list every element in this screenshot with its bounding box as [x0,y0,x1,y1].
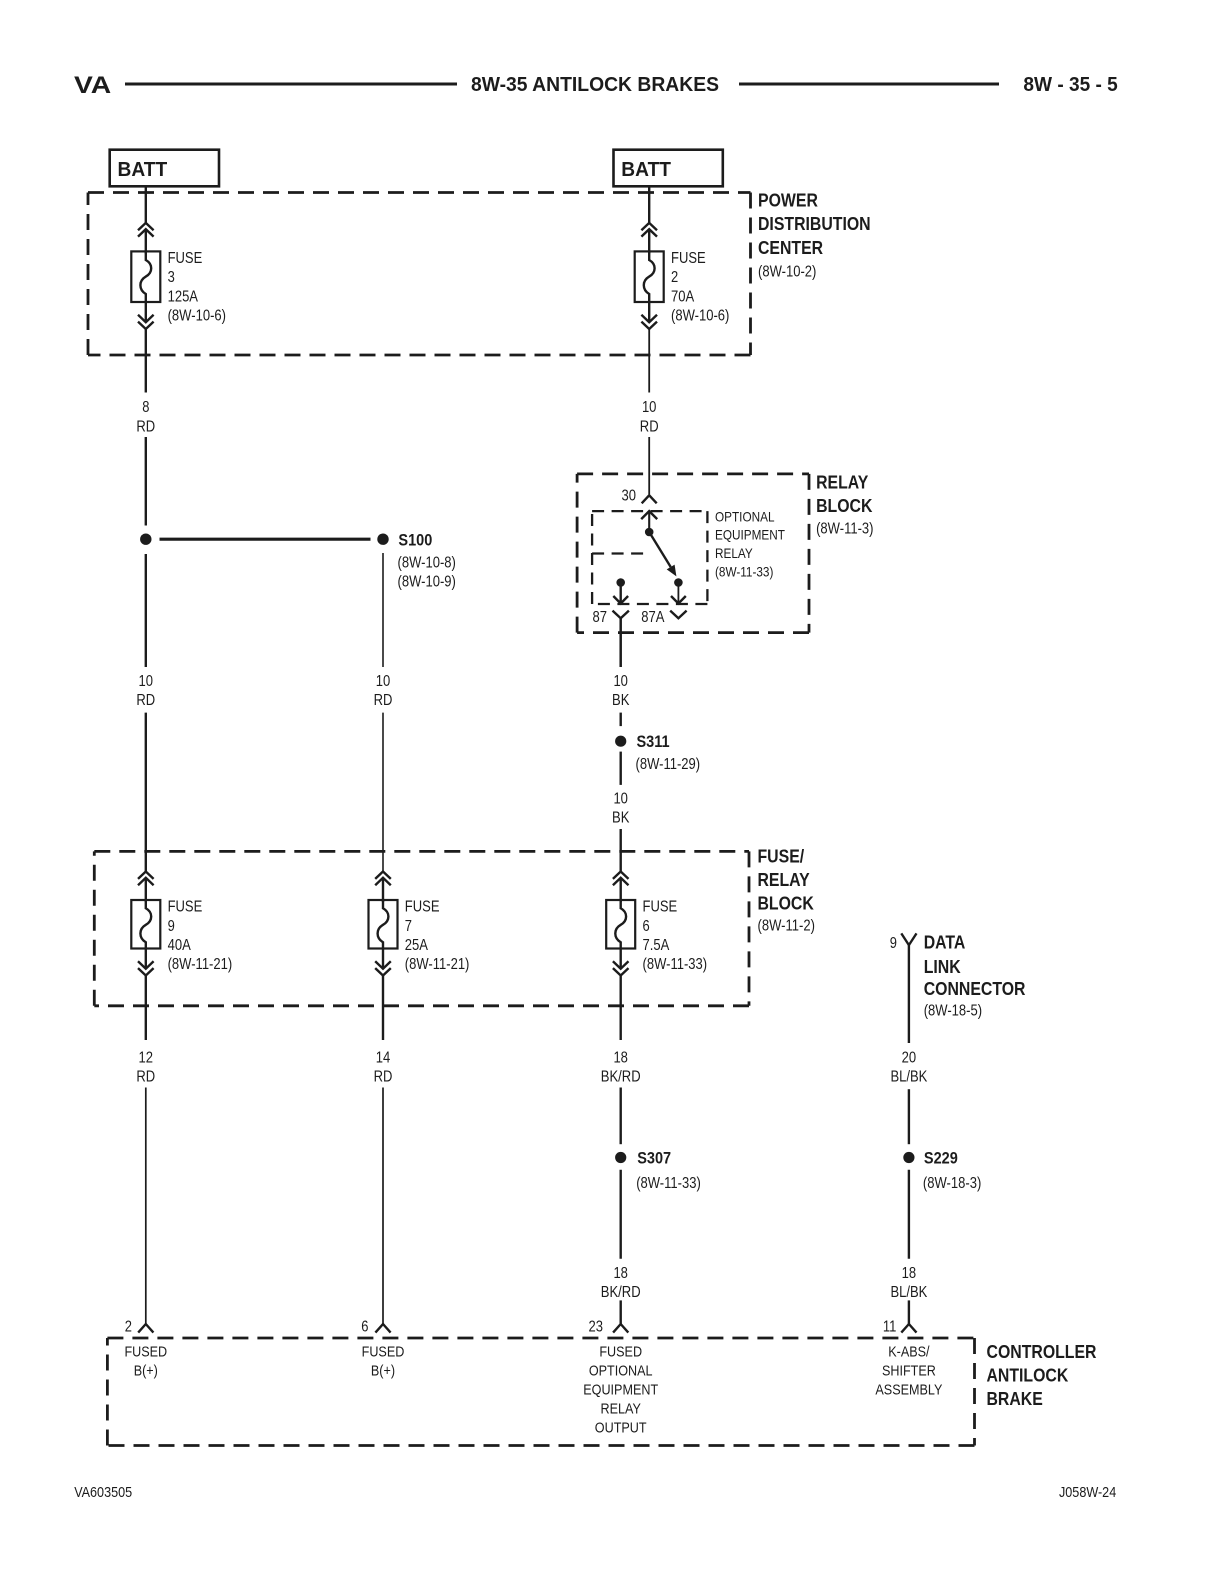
svg-text:40A: 40A [168,937,192,954]
svg-text:2: 2 [671,269,678,286]
svg-text:J058W-24: J058W-24 [1059,1484,1116,1501]
svg-text:RD: RD [136,692,155,709]
svg-text:RELAY: RELAY [601,1400,641,1417]
svg-text:125A: 125A [168,288,199,305]
svg-text:FUSE: FUSE [405,899,440,916]
svg-text:S311: S311 [637,733,670,751]
svg-text:7: 7 [405,918,412,935]
svg-text:8: 8 [142,399,149,416]
svg-text:FUSED: FUSED [124,1343,167,1360]
svg-text:BK/RD: BK/RD [601,1069,641,1086]
svg-text:K-ABS/: K-ABS/ [888,1343,930,1360]
svg-text:FUSE: FUSE [168,250,203,267]
svg-text:(8W-11-2): (8W-11-2) [758,918,815,935]
svg-text:B(+): B(+) [371,1362,395,1379]
svg-text:10: 10 [139,673,154,690]
svg-text:RD: RD [374,1069,393,1086]
svg-text:20: 20 [902,1049,917,1066]
svg-text:OUTPUT: OUTPUT [595,1419,647,1436]
svg-text:18: 18 [902,1265,917,1282]
svg-text:FUSE: FUSE [643,899,678,916]
svg-text:(8W-10-2): (8W-10-2) [758,264,816,281]
svg-text:FUSED: FUSED [599,1343,642,1360]
svg-text:SHIFTER: SHIFTER [882,1362,936,1379]
svg-text:BK/RD: BK/RD [601,1284,641,1301]
svg-text:DATA: DATA [924,933,966,953]
svg-text:18: 18 [613,1049,628,1066]
svg-text:18: 18 [613,1265,628,1282]
svg-text:7.5A: 7.5A [643,937,670,954]
svg-text:VA: VA [74,72,112,99]
svg-text:10: 10 [376,673,391,690]
svg-text:6: 6 [643,918,650,935]
svg-text:RD: RD [136,1069,155,1086]
svg-text:12: 12 [139,1049,154,1066]
svg-text:(8W-11-21): (8W-11-21) [405,956,470,973]
svg-text:FUSED: FUSED [362,1343,405,1360]
svg-text:6: 6 [361,1318,368,1335]
svg-text:11: 11 [883,1318,897,1335]
svg-text:10: 10 [613,673,628,690]
svg-text:10: 10 [642,399,657,416]
svg-text:B(+): B(+) [134,1362,158,1379]
svg-text:CONNECTOR: CONNECTOR [924,979,1026,999]
svg-text:RD: RD [374,692,393,709]
svg-text:S100: S100 [398,531,432,549]
svg-text:70A: 70A [671,288,695,305]
svg-text:(8W-10-6): (8W-10-6) [671,308,729,325]
svg-text:(8W-11-33): (8W-11-33) [636,1175,701,1192]
svg-text:2: 2 [125,1318,132,1335]
svg-text:BATT: BATT [621,158,671,181]
svg-text:RD: RD [136,418,155,435]
svg-text:RELAY: RELAY [715,545,753,561]
svg-text:S229: S229 [924,1149,958,1167]
svg-text:S307: S307 [637,1149,671,1167]
svg-text:87: 87 [593,609,608,626]
svg-text:FUSE: FUSE [168,899,203,916]
svg-text:BATT: BATT [118,158,168,181]
svg-text:CONTROLLER: CONTROLLER [987,1342,1097,1362]
svg-text:BK: BK [612,692,630,709]
svg-text:(8W-11-3): (8W-11-3) [816,521,873,538]
svg-text:RELAY: RELAY [758,870,810,890]
svg-text:OPTIONAL: OPTIONAL [715,508,775,524]
svg-text:(8W-11-21): (8W-11-21) [168,956,233,973]
svg-text:BK: BK [612,810,630,827]
svg-text:(8W-10-6): (8W-10-6) [168,308,226,325]
svg-text:POWER: POWER [758,191,818,211]
svg-text:30: 30 [622,487,637,504]
svg-text:(8W-10-9): (8W-10-9) [398,573,456,590]
svg-text:25A: 25A [405,937,429,954]
svg-text:BRAKE: BRAKE [987,1389,1043,1409]
svg-text:87A: 87A [641,609,665,626]
svg-text:8W-35 ANTILOCK BRAKES: 8W-35 ANTILOCK BRAKES [471,74,719,96]
svg-text:RD: RD [640,418,659,435]
svg-text:VA603505: VA603505 [74,1484,132,1501]
svg-text:ASSEMBLY: ASSEMBLY [875,1381,942,1398]
svg-text:LINK: LINK [924,957,961,977]
svg-text:(8W-11-33): (8W-11-33) [715,563,773,579]
svg-text:FUSE: FUSE [671,250,706,267]
svg-text:23: 23 [589,1318,604,1335]
svg-text:(8W-18-5): (8W-18-5) [924,1003,982,1020]
svg-text:(8W-11-33): (8W-11-33) [643,956,708,973]
svg-text:FUSE/: FUSE/ [758,846,805,866]
svg-text:(8W-10-8): (8W-10-8) [398,554,456,571]
svg-text:9: 9 [168,918,175,935]
svg-text:OPTIONAL: OPTIONAL [589,1362,653,1379]
svg-text:14: 14 [376,1049,391,1066]
svg-text:(8W-18-3): (8W-18-3) [923,1175,981,1192]
svg-text:CENTER: CENTER [758,238,823,258]
svg-text:(8W-11-29): (8W-11-29) [636,756,701,773]
svg-text:DISTRIBUTION: DISTRIBUTION [758,214,871,234]
svg-text:BLOCK: BLOCK [816,496,872,516]
svg-text:RELAY: RELAY [816,473,868,493]
svg-text:3: 3 [168,269,175,286]
svg-text:EQUIPMENT: EQUIPMENT [715,527,785,543]
svg-text:9: 9 [890,935,897,952]
svg-text:8W - 35 - 5: 8W - 35 - 5 [1023,74,1117,96]
svg-text:10: 10 [613,790,628,807]
svg-text:EQUIPMENT: EQUIPMENT [583,1381,658,1398]
svg-text:BLOCK: BLOCK [758,893,814,913]
svg-text:ANTILOCK: ANTILOCK [987,1366,1069,1386]
svg-text:BL/BK: BL/BK [890,1284,927,1301]
svg-text:BL/BK: BL/BK [890,1069,927,1086]
